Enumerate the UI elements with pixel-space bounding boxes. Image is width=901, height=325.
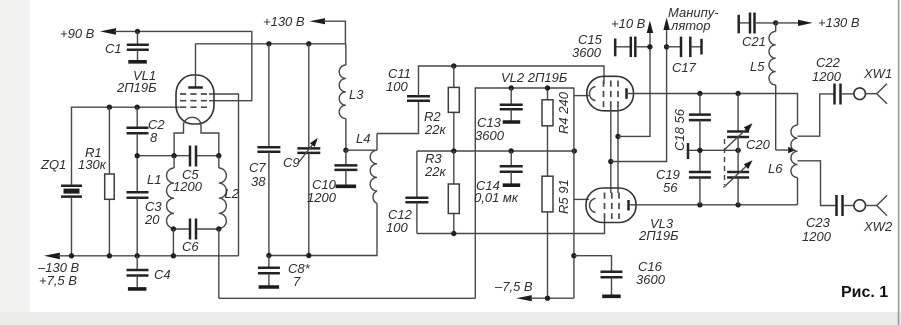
wire node B line xyxy=(417,150,574,152)
capacitor C5 xyxy=(173,146,203,195)
svg-text:XW2: XW2 xyxy=(863,219,893,234)
svg-text:R4 240: R4 240 xyxy=(556,91,571,134)
node +130V supply right xyxy=(773,15,860,30)
node -7.5V supply xyxy=(494,279,574,301)
svg-text:C7: C7 xyxy=(249,160,266,175)
wire VL2 grid2 to VL3 grid2 xyxy=(610,107,612,193)
svg-text:C20: C20 xyxy=(746,137,771,152)
wire node C line to VL3 grid xyxy=(417,219,605,234)
wire L1 tap to rail xyxy=(172,229,174,256)
wire VL1 anode line xyxy=(196,43,346,45)
anode of VL3 xyxy=(629,200,637,211)
svg-text:2П19Б: 2П19Б xyxy=(638,228,679,243)
svg-text:C6: C6 xyxy=(182,239,199,254)
wire L2 bottom to lower rail xyxy=(218,229,220,298)
svg-text:100: 100 xyxy=(386,220,408,235)
anode of VL2 xyxy=(627,88,635,99)
svg-text:C22: C22 xyxy=(816,55,841,70)
wire keyer branch line xyxy=(611,30,667,162)
svg-text:L5: L5 xyxy=(750,59,765,74)
svg-text:C21: C21 xyxy=(742,34,766,49)
grid rows VL1 xyxy=(180,94,210,107)
svg-text:100: 100 xyxy=(386,79,408,94)
svg-text:0,01 мк: 0,01 мк xyxy=(474,190,519,205)
capacitor C4 xyxy=(127,256,171,289)
connector XW1 xyxy=(854,66,892,104)
wire VL3 anode line xyxy=(636,204,798,206)
capacitor C18 xyxy=(672,94,711,152)
wire L5 tap arrow into L6 xyxy=(776,147,796,153)
capacitor C14 xyxy=(474,151,523,205)
capacitor C13 xyxy=(475,85,523,143)
svg-text:лятор: лятор xyxy=(670,18,710,33)
capacitor C9 variable xyxy=(283,44,320,255)
resistor R2 xyxy=(424,66,459,151)
capacitor C23 xyxy=(802,195,854,244)
capacitor C19 xyxy=(656,150,711,205)
capacitor C21 xyxy=(739,13,776,50)
capacitor C22 xyxy=(812,55,854,105)
wire cathode column xyxy=(573,88,575,298)
svg-text:3600: 3600 xyxy=(475,128,505,143)
capacitor C17 xyxy=(664,37,702,75)
gang link dashed xyxy=(724,139,726,185)
wire VL1 grid1 to -130V rail xyxy=(209,94,239,256)
tube VL2 2П19Б envelope xyxy=(587,76,634,111)
node keyer label xyxy=(663,5,719,33)
capacitor C10 xyxy=(307,150,357,205)
svg-text:7: 7 xyxy=(293,274,301,289)
grid columns VL3 xyxy=(605,193,620,220)
svg-text:3600: 3600 xyxy=(572,45,602,60)
inductor L4 xyxy=(356,131,377,203)
svg-text:+130 В: +130 В xyxy=(818,15,860,30)
svg-text:L6: L6 xyxy=(768,161,783,176)
svg-text:20: 20 xyxy=(144,212,160,227)
capacitor C11 xyxy=(377,66,454,134)
connector XW2 xyxy=(854,195,893,234)
capacitor C20 variable gang bottom xyxy=(724,137,771,205)
wire cathode legs to tank xyxy=(174,124,183,156)
wire tank bottom rail xyxy=(173,228,218,230)
node filter mid line with terminal bar xyxy=(688,143,741,159)
resistor R5 xyxy=(542,151,571,298)
inductor L3 xyxy=(339,44,364,150)
svg-text:VL2 2П19Б: VL2 2П19Б xyxy=(501,70,568,85)
resistor R3 xyxy=(424,151,459,234)
node -130V +7.5V labels xyxy=(37,260,80,288)
svg-text:22к: 22к xyxy=(424,164,446,179)
node +90V supply xyxy=(60,26,116,41)
svg-text:L2: L2 xyxy=(225,186,240,201)
wire VL3 cathode lead xyxy=(574,198,589,200)
svg-text:L3: L3 xyxy=(349,87,364,102)
node junction C2 top xyxy=(135,105,140,110)
wire VL2 grid3 to VL3 grid3 xyxy=(617,107,619,193)
wire node 88 line xyxy=(475,88,574,298)
svg-text:+10 В: +10 В xyxy=(611,16,646,31)
svg-text:22к: 22к xyxy=(424,122,446,137)
svg-text:38: 38 xyxy=(251,174,266,189)
grid columns VL2 xyxy=(604,81,619,108)
wire grid node A to VL2 xyxy=(454,66,604,84)
node junction C10 xyxy=(343,148,348,153)
svg-text:R5 91: R5 91 xyxy=(556,179,571,214)
resistor R1 xyxy=(78,107,114,256)
svg-text:ZQ1: ZQ1 xyxy=(40,157,66,172)
inductor L6 xyxy=(768,125,798,205)
svg-text:+130 В: +130 В xyxy=(263,14,305,29)
svg-text:C9: C9 xyxy=(283,155,300,170)
svg-text:1200: 1200 xyxy=(802,229,832,244)
svg-text:L4: L4 xyxy=(356,131,370,146)
inductor L1 xyxy=(147,156,174,229)
wire C7 C9 bottom rail xyxy=(269,203,377,255)
node junction C1 top xyxy=(135,29,140,34)
resistor R4 xyxy=(542,85,571,151)
wire VL2 anode line xyxy=(633,94,798,126)
svg-text:56: 56 xyxy=(663,180,678,195)
wire L3 to L4 link xyxy=(346,149,377,151)
anode of VL1 xyxy=(188,44,203,88)
svg-text:C17: C17 xyxy=(672,60,697,75)
capacitor C12 xyxy=(386,151,428,235)
tube VL3 2П19Б envelope xyxy=(586,188,636,223)
svg-text:–7,5 В: –7,5 В xyxy=(494,279,533,294)
svg-text:1200: 1200 xyxy=(307,190,337,205)
svg-text:1200: 1200 xyxy=(173,179,203,194)
svg-text:130к: 130к xyxy=(78,157,107,172)
svg-text:L1: L1 xyxy=(147,172,161,187)
wire L6 lower tap to C23 xyxy=(798,161,836,206)
capacitor C8 xyxy=(258,256,311,290)
svg-text:C23: C23 xyxy=(806,215,831,230)
svg-text:8: 8 xyxy=(150,130,158,145)
svg-text:C4: C4 xyxy=(154,267,171,282)
svg-text:+90 В: +90 В xyxy=(60,26,95,41)
wire L6 top tap to C22 xyxy=(798,94,834,136)
wire VL2 cathode lead xyxy=(574,95,589,97)
cathode filament VL1 xyxy=(184,117,202,124)
svg-text:XW1: XW1 xyxy=(863,66,892,81)
tube VL1 2П19Б envelope xyxy=(176,75,214,124)
capacitor C15 xyxy=(572,32,653,60)
wire VL1 grid3 node line xyxy=(72,107,180,185)
node +130V supply left xyxy=(263,14,345,44)
svg-text:2П19Б: 2П19Б xyxy=(116,80,157,95)
capacitor C1 xyxy=(105,31,149,61)
wire bottom common rail xyxy=(219,297,476,299)
cathode VL3 xyxy=(589,198,595,212)
capacitor C3 xyxy=(127,156,163,256)
node +10V supply xyxy=(611,16,653,33)
capacitor C16 xyxy=(574,256,666,297)
capacitor C7 xyxy=(249,44,280,256)
svg-text:C1: C1 xyxy=(105,41,122,56)
wire -130V rail xyxy=(44,253,239,260)
svg-text:1200: 1200 xyxy=(812,69,842,84)
inductor L2 xyxy=(219,156,240,229)
svg-text:3600: 3600 xyxy=(636,272,666,287)
capacitor C20 variable gang top xyxy=(724,94,753,151)
capacitor C6 xyxy=(182,219,199,255)
cathode VL2 xyxy=(589,87,595,101)
crystal ZQ1 xyxy=(40,157,82,256)
capacitor C2 xyxy=(127,107,166,156)
inductor L5 xyxy=(750,23,776,150)
svg-text:Рис. 1: Рис. 1 xyxy=(841,284,888,301)
wire +90V rail xyxy=(114,31,252,100)
svg-text:C18 56: C18 56 xyxy=(672,108,687,151)
wire tank top rail xyxy=(137,155,219,157)
svg-text:+7,5 В: +7,5 В xyxy=(39,273,77,288)
node junction R1 top xyxy=(107,105,112,110)
wire screen branch line xyxy=(618,28,650,136)
